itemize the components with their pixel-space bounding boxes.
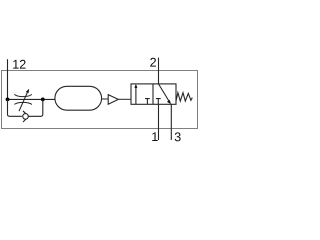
node junction dot left xyxy=(6,98,10,102)
port 2 line xyxy=(158,58,160,84)
node junction dot right xyxy=(41,98,45,102)
left box blocked port T xyxy=(145,99,150,105)
port 1 line xyxy=(158,104,160,140)
throttle F1 arcs xyxy=(14,94,32,96)
bypass wire right side xyxy=(28,99,42,116)
valve U1 position divider xyxy=(152,84,154,104)
valve U1 body xyxy=(131,84,176,104)
right box flow diagonal 2 to 3 xyxy=(159,84,170,102)
label 1 xyxy=(152,132,157,141)
left box flow arrow 1 to 2 xyxy=(135,87,137,105)
port 3 line xyxy=(170,104,172,140)
check valve V1 seat xyxy=(23,111,29,122)
label 3 xyxy=(175,132,181,141)
bypass wire left/bottom xyxy=(8,99,22,116)
pilot amplifier triangle xyxy=(108,95,118,105)
right box blocked port T xyxy=(156,99,161,105)
enclosure box xyxy=(2,71,198,129)
label 12 xyxy=(13,60,25,69)
wire tank to amplifier xyxy=(102,98,109,100)
port 12 line xyxy=(7,59,9,99)
label 2 xyxy=(150,58,156,67)
reservoir tank xyxy=(55,86,102,110)
throttle F1 adjustment arrow xyxy=(19,93,27,111)
check valve V1 ball xyxy=(23,114,29,120)
return spring xyxy=(176,93,192,102)
wire amplifier to valve pilot xyxy=(118,98,131,100)
wire main line xyxy=(8,98,55,100)
